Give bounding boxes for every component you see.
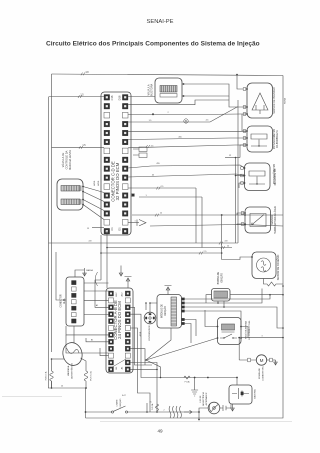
temp pin 1 <box>244 212 246 214</box>
pin D16 <box>122 95 128 101</box>
wire bus to pin C16 <box>49 96 105 98</box>
wire AB A10 right drop <box>131 307 153 365</box>
svg-text:24 PINOS DO ECM: 24 PINOS DO ECM <box>117 301 122 339</box>
svg-text:CONTROLE DA: CONTROLE DA <box>64 150 68 169</box>
wire bobina left <box>206 295 212 303</box>
pin D10 <box>122 148 128 154</box>
bus 12 y247.5 <box>107 247 232 249</box>
svg-text:ROSA: ROSA <box>284 98 287 104</box>
svg-text:ADVERTÊNCIA: ADVERTÊNCIA <box>202 392 205 406</box>
coil symbol on bus <box>169 406 181 418</box>
svg-text:MARCHA LENTA: MARCHA LENTA <box>68 150 72 170</box>
wire modulo out5 <box>185 320 197 337</box>
svg-text:COMBUSTÍVEL: COMBUSTÍVEL <box>261 365 264 381</box>
pin C1 <box>104 228 110 234</box>
connector A-B 24 pins ECM outline <box>106 288 133 373</box>
pin C3 <box>104 211 110 217</box>
fuse FUS 5A on bus <box>156 404 159 412</box>
pin D6 <box>122 184 128 190</box>
wire vertical x238 <box>237 100 239 243</box>
wire modulo out4 <box>185 311 242 330</box>
lampada advertencia lamp <box>61 341 85 368</box>
svg-text:Circuito Elétrico dos Principa: Circuito Elétrico dos Principais Compone… <box>46 41 260 48</box>
comutador circle <box>208 402 220 414</box>
wire net 12 to temp pin1 and border <box>132 214 283 216</box>
bus 4.8 y243 <box>49 242 239 244</box>
modulo pin out 2 <box>182 302 185 304</box>
pin C13 <box>104 121 110 127</box>
wire modulo out3 <box>185 307 284 328</box>
svg-text:D16: D16 <box>117 95 121 100</box>
pin D12 <box>122 130 128 136</box>
pin C14 <box>104 112 110 118</box>
wire AB A9 drop <box>131 314 161 377</box>
bobina coil hatch <box>214 291 228 298</box>
wire M motor feed <box>239 359 256 361</box>
potentiometer ajuste CO box <box>245 163 271 191</box>
pin A11 <box>125 298 130 303</box>
junction blob <box>132 194 135 197</box>
pin C8 <box>104 166 110 172</box>
faint scan artifact line <box>2 396 62 398</box>
pin A9 <box>125 312 130 317</box>
modulo inner bar <box>171 297 177 326</box>
ALDL pin 7 <box>72 319 77 323</box>
wire daisy chain pots <box>240 114 247 158</box>
wire vertical x85.5 <box>85 388 87 418</box>
potentiometer borboleta box <box>247 126 273 152</box>
svg-text:M: M <box>260 358 264 363</box>
wire stub row 15 <box>92 227 104 229</box>
pin B6 <box>109 332 114 337</box>
bobina bottom stub 1 <box>217 301 219 303</box>
lambda pin <box>251 256 253 258</box>
pin A8 <box>125 319 130 324</box>
wire injector return down <box>229 96 238 107</box>
temp sensor agua box <box>245 207 271 233</box>
pin B10 <box>109 305 114 310</box>
wire module bottom drop <box>146 328 171 378</box>
wire bus to pin C10 <box>52 146 105 148</box>
wire left feed vertical A <box>51 74 53 388</box>
relay pin R1 <box>240 326 242 328</box>
wire D col to MAP pin2 <box>128 107 247 122</box>
fuse FUS 7,5A <box>84 371 87 388</box>
bobina de ignicao box <box>212 289 231 302</box>
pin B5 <box>109 339 114 344</box>
arrow right on bus <box>184 410 192 414</box>
relay coil <box>222 324 235 330</box>
wire AB B10 left <box>95 280 109 307</box>
svg-text:DE COMBUSTÍVEL: DE COMBUSTÍVEL <box>248 320 251 340</box>
ground arrow x121 <box>119 266 123 277</box>
valvula marcha lenta box <box>57 179 83 210</box>
svg-text:LÂMPADA: LÂMPADA <box>67 365 70 376</box>
svg-text:AZUL: AZUL <box>139 332 142 337</box>
pin C15 <box>104 103 110 109</box>
wire M right <box>267 359 276 361</box>
pin D1 <box>122 228 128 234</box>
wire D col to pot2 <box>128 165 245 168</box>
MAP sensor (sensor de pressao) box U-MAP <box>247 83 273 118</box>
bus ignition y412 <box>86 411 200 413</box>
pin B4 <box>109 346 114 351</box>
wire D15 to injector loop <box>128 100 229 105</box>
bateria box <box>229 385 252 404</box>
svg-text:1: 1 <box>134 221 135 223</box>
pin A1 <box>125 367 130 372</box>
svg-text:IGNIÇÃO: IGNIÇÃO <box>220 273 223 283</box>
ALDL pin 3 <box>72 293 77 297</box>
wire idle valve pin 4 <box>83 205 104 220</box>
wire D col to pot1 pin2 <box>128 138 247 140</box>
pin C10 <box>104 148 110 154</box>
pin C9 <box>104 157 110 163</box>
wire C1 drop <box>106 231 108 288</box>
bus y388 <box>48 387 86 389</box>
junction on injector wire <box>152 113 154 115</box>
MAP pin 2 <box>246 106 248 108</box>
wire AB B3 drop <box>131 349 146 365</box>
fuse FUS 15A <box>50 359 53 388</box>
wire lambda feed <box>222 253 252 260</box>
wire AB A7 right drop <box>131 328 151 412</box>
pin B9 <box>109 312 114 317</box>
relay contact <box>220 334 237 338</box>
pin A7 <box>125 326 130 331</box>
pin B2 <box>109 360 114 365</box>
wire distribuidor to modulo <box>150 303 157 312</box>
capacitor symbol <box>220 405 231 411</box>
wire top bus 4.8 to right border <box>52 74 284 76</box>
pot CO pin 2 <box>244 175 246 177</box>
modulo top arrow up <box>165 286 172 295</box>
svg-text:RELÉ DA BOMBA: RELÉ DA BOMBA <box>245 321 248 339</box>
svg-text:32 PINOS DO ECM: 32 PINOS DO ECM <box>115 162 120 200</box>
wire AB A1 right junction <box>131 369 158 412</box>
wire pot2 pin3 stub <box>239 183 245 188</box>
relay pin R2 <box>240 337 242 339</box>
marcha lenta coil 1 <box>61 186 80 192</box>
pin D9 <box>122 157 128 163</box>
pot CO resistor symbol <box>249 171 265 176</box>
wire arc near ALDL <box>95 272 97 286</box>
wire bobina right to border <box>230 294 283 296</box>
pot borboleta resistor symbol <box>251 134 267 139</box>
pot borboleta pin 1 <box>246 130 248 132</box>
modulo de ignicao box <box>157 295 182 329</box>
svg-text:FUS 7,5 A: FUS 7,5 A <box>90 371 93 381</box>
wire ALDL to AB row2 <box>84 314 109 316</box>
svg-text:BATERIA: BATERIA <box>254 389 257 399</box>
lambda heater resistor <box>264 279 284 287</box>
pin C2 <box>104 220 110 226</box>
wire D col to MAP pin3 <box>128 113 247 116</box>
pin D5 <box>122 193 128 199</box>
wire ALDL top to massa arrow <box>75 270 85 277</box>
wire lamp right lead <box>81 358 87 371</box>
svg-text:C1: C1 <box>110 227 114 231</box>
wire vertical x202 <box>201 197 203 248</box>
wire C col drop2 <box>100 235 102 280</box>
pin B7 <box>109 326 114 331</box>
distribuidor circle <box>144 312 156 324</box>
ALDL pin 2 <box>72 287 77 291</box>
svg-text:49: 49 <box>157 429 163 434</box>
svg-text:SENSOR DE PRESSÃO: SENSOR DE PRESSÃO <box>273 87 276 113</box>
wire D col to pot1 pin1 <box>128 130 247 132</box>
svg-text:CONECTOR: CONECTOR <box>61 294 63 307</box>
wire right border net <box>86 76 284 419</box>
pin B3 <box>109 353 114 358</box>
svg-text:AZUL: AZUL <box>97 180 100 186</box>
svg-text:SENSOR: SENSOR <box>272 215 274 225</box>
svg-text:F 10A: F 10A <box>185 381 191 384</box>
fuse in bus <box>184 376 190 379</box>
wire ALDL to AB row1 <box>84 299 109 301</box>
pin D15 <box>122 103 128 109</box>
wire diagonal to relay <box>146 338 218 360</box>
modulo pin out 5 <box>182 318 185 320</box>
pot CO pin 1 <box>244 167 246 169</box>
svg-text:BOMBA DE: BOMBA DE <box>258 367 261 378</box>
MAP pin 3 <box>246 113 248 115</box>
ground stack <box>191 378 198 397</box>
svg-text:IGNIÇÃO: IGNIÇÃO <box>164 306 167 316</box>
pin D13 <box>122 121 128 127</box>
wire gauge tick marks <box>78 73 225 255</box>
ALDL top ground arrow <box>83 268 87 276</box>
pin C7 <box>104 175 110 181</box>
svg-text:DE AJUSTE CO: DE AJUSTE CO <box>274 168 277 185</box>
pin A3 <box>125 353 130 358</box>
MAP pin 1 <box>246 88 248 90</box>
wire AB B5 left <box>86 338 109 342</box>
node label D circle <box>184 119 188 123</box>
fuel pump motor M <box>256 355 266 365</box>
wire vertical x221.7 <box>221 215 223 253</box>
rele da bomba box <box>218 318 242 345</box>
svg-text:FUS 5A: FUS 5A <box>151 403 154 410</box>
wire pot bus label 12 <box>225 157 240 159</box>
lambda sensor circle <box>257 258 271 272</box>
valvula injetora coil <box>160 86 177 93</box>
wire relay R1 jog <box>241 327 248 338</box>
wire D1 out <box>128 222 139 224</box>
junction 15 stub <box>146 403 148 412</box>
wire 2.5 stub <box>128 187 196 189</box>
temp pin 2 <box>244 223 246 225</box>
wire to temp pin2 and border <box>150 225 283 227</box>
wire modulo out1 <box>185 295 271 299</box>
wire AB B6 left long <box>66 326 109 335</box>
battery symbol <box>232 388 249 399</box>
wire relay R2 to border <box>241 337 283 339</box>
sheet arrow right <box>137 220 146 226</box>
svg-text:CHAVE: CHAVE <box>116 399 119 407</box>
svg-text:SENSOR DE OXIGÊNIO: SENSOR DE OXIGÊNIO <box>277 255 280 281</box>
wire D col to pot1 pin3 <box>128 145 247 148</box>
ALDL pin 1 <box>72 281 77 285</box>
pin A2 <box>125 360 130 365</box>
wire idle valve pin 3 <box>83 200 104 211</box>
svg-text:3: 3 <box>262 335 263 337</box>
wire 1 stub <box>139 196 202 198</box>
wire vline x235.5 <box>235 158 237 244</box>
svg-text:A5: A5 <box>96 304 98 307</box>
svg-text:15: 15 <box>150 402 152 404</box>
pin A5 <box>125 339 130 344</box>
pin D11 <box>122 139 128 145</box>
svg-text:MÓDULO DE: MÓDULO DE <box>161 304 164 318</box>
wire pot2 pin2 jog <box>236 175 245 177</box>
wire relay L1 <box>205 310 218 327</box>
svg-text:ALTERNADOR: ALTERNADOR <box>205 392 208 405</box>
svg-text:DA BORBOLETA: DA BORBOLETA <box>276 130 279 148</box>
wire injector feed from D16 <box>128 96 155 98</box>
pin D4 <box>122 202 128 208</box>
pin C12 <box>104 130 110 136</box>
pin C5 <box>104 193 110 199</box>
wire left feed vertical B <box>48 97 50 388</box>
pin B1 <box>109 367 114 372</box>
chave ignicao switch <box>111 411 113 413</box>
ALDL pin 6 <box>72 313 77 317</box>
svg-text:DISTRIBUIDOR: DISTRIBUIDOR <box>149 325 151 340</box>
capacitor filter pair <box>139 147 147 152</box>
svg-text:IGNIÇÃO: IGNIÇÃO <box>119 398 122 407</box>
svg-text:FUS 15 A: FUS 15 A <box>45 371 48 380</box>
pin B8 <box>109 319 114 324</box>
wire injector pin 1 loop <box>182 84 229 96</box>
pot CO pin 3 <box>244 182 246 184</box>
modulo pin out 3 <box>182 306 185 308</box>
wire comutador left <box>199 408 208 420</box>
modulo pin out 6 <box>182 322 185 324</box>
modulo pin out 1 <box>182 298 185 300</box>
wire ALDL to lamp vertical <box>73 326 75 343</box>
pin B12 <box>109 291 114 296</box>
relay pin L1 <box>217 326 219 328</box>
modulo pin out 4 <box>182 310 185 312</box>
pin D8 <box>122 166 128 172</box>
wire idle valve pin 2 <box>83 192 104 202</box>
wire bottom faint line <box>100 421 292 423</box>
svg-text:C16: C16 <box>110 95 114 100</box>
connector A-B top arrow <box>125 277 132 289</box>
wire ALDL to AB row a <box>84 282 109 284</box>
pot borboleta pin 3 <box>246 144 248 146</box>
valvula injetora box <box>155 78 182 103</box>
wire left vertical x56 <box>56 252 66 300</box>
relay pin L2 <box>217 337 219 339</box>
battery ground arrow <box>231 404 235 411</box>
marcha lenta coil 2 <box>61 199 80 205</box>
conector ALDL outline <box>66 277 84 326</box>
pin A12 <box>125 291 130 296</box>
wire lamp left lead <box>52 358 65 360</box>
wire vertical x196 <box>195 188 197 243</box>
svg-text:2: 2 <box>164 410 165 412</box>
bus 2.5 y253 <box>101 252 222 254</box>
wire AB B2 stub <box>100 348 109 356</box>
pot borboleta pin 2 <box>246 137 248 139</box>
svg-text:TEMPERATURA DA ÁGUA: TEMPERATURA DA ÁGUA <box>274 206 277 234</box>
pin C4 <box>104 202 110 208</box>
svg-text:AZUL: AZUL <box>93 180 96 186</box>
svg-text:BOBINA DE: BOBINA DE <box>217 271 220 284</box>
pin D2 <box>122 220 128 226</box>
ALDL pin 5 <box>72 306 77 310</box>
svg-text:ADVERTÊNCIA: ADVERTÊNCIA <box>70 363 73 379</box>
wire battery top <box>236 378 238 386</box>
svg-text:SENAI-PE: SENAI-PE <box>146 19 173 25</box>
thermistor symbol <box>250 214 266 227</box>
svg-text:LUZ DE: LUZ DE <box>200 395 202 402</box>
pin D7 <box>122 175 128 181</box>
wire modulo out2 <box>185 289 263 304</box>
pin D14 <box>122 112 128 118</box>
pin C16 <box>104 95 110 101</box>
wire AB A2 right <box>131 363 158 370</box>
connector C-D 32 pins ECM outline <box>101 92 131 235</box>
bus y377.5 <box>161 377 238 379</box>
pin D3 <box>122 211 128 217</box>
svg-text:INJETORA: INJETORA <box>151 84 154 97</box>
svg-text:B5: B5 <box>91 340 93 342</box>
svg-text:D1: D1 <box>117 227 121 231</box>
MAP sensor triangle symbol <box>252 93 268 114</box>
wire D col to pot2 pin2 <box>128 174 245 177</box>
wire AB B4 left to lamp <box>66 335 109 353</box>
wire relay R2 down to M <box>238 338 240 360</box>
ALDL pin 4 <box>72 300 77 304</box>
svg-text:ALDL: ALDL <box>63 297 66 303</box>
bobina bottom stub 2 <box>223 301 225 307</box>
wire modulo left drop <box>145 303 147 310</box>
lambda O2 sensor box <box>252 252 276 279</box>
svg-text:A 17: A 17 <box>122 394 126 397</box>
pin A4 <box>125 346 130 351</box>
wire modulo out6 <box>185 324 192 344</box>
diagonal through AB bottom <box>108 359 126 370</box>
M ground arrow <box>274 360 278 365</box>
pin B11 <box>109 298 114 303</box>
wire MAP top feed from bus <box>237 75 247 90</box>
wire ALDL to AB row b <box>84 290 109 292</box>
wire idle valve pin 1 <box>83 187 104 193</box>
pin A10 <box>125 305 130 310</box>
svg-text:POTENCIÔMETRO: POTENCIÔMETRO <box>273 129 276 150</box>
svg-text:MASSA: MASSA <box>86 269 93 272</box>
pin A6 <box>125 332 130 337</box>
pin C11 <box>104 139 110 145</box>
pin C6 <box>104 184 110 190</box>
